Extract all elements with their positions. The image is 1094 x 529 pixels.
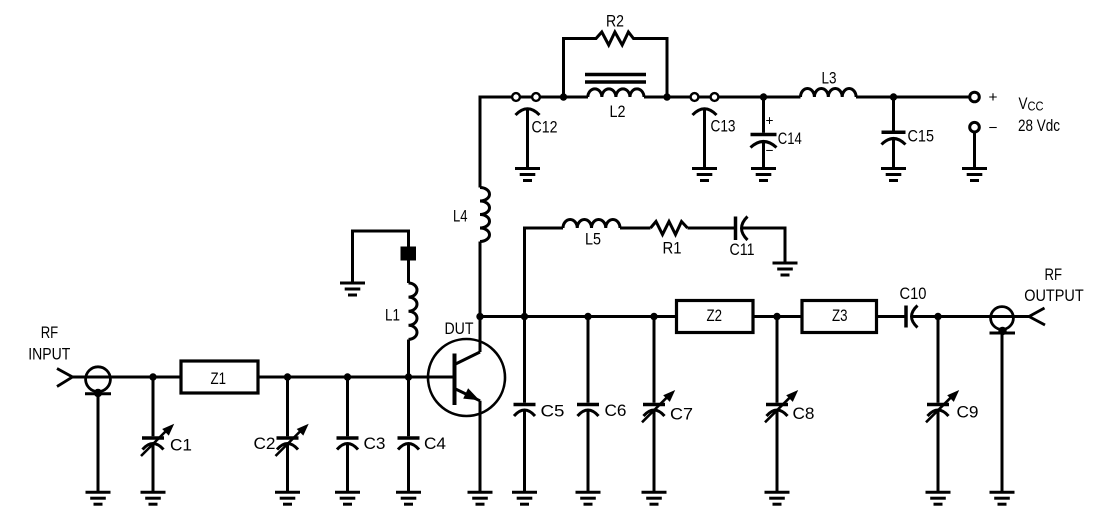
arrow C9 xyxy=(926,390,959,422)
capacitor C1 variable xyxy=(142,438,164,450)
RF input connector xyxy=(85,367,111,394)
wire Vcc bus left xyxy=(480,96,588,99)
svg-text:C8: C8 xyxy=(793,405,815,423)
junction C1 xyxy=(149,373,156,380)
RF output connector xyxy=(990,307,1016,333)
junction R2 right xyxy=(663,93,670,100)
junction C9 xyxy=(934,313,941,320)
svg-text:C14: C14 xyxy=(778,130,802,148)
arrow C8 xyxy=(765,390,798,422)
wire C1 upper xyxy=(152,377,155,436)
svg-text:C7: C7 xyxy=(670,406,693,424)
junction collector node xyxy=(476,313,483,320)
wire C5 upper xyxy=(523,317,526,403)
ground C1 xyxy=(141,492,166,504)
svg-text:R2: R2 xyxy=(606,13,624,31)
svg-text:Z1: Z1 xyxy=(211,370,227,388)
wire Vcc bus middle xyxy=(644,96,801,99)
wire C14 upper xyxy=(762,97,765,133)
junction C2 xyxy=(284,373,291,380)
capacitor C4 xyxy=(398,438,420,450)
ground C13 xyxy=(692,169,717,181)
wire C11 to ground corner xyxy=(741,228,785,264)
wire C14 lower xyxy=(762,141,765,169)
ground C6 xyxy=(576,492,601,504)
wire C15 upper xyxy=(892,97,895,131)
svg-text:C1: C1 xyxy=(170,437,192,455)
feedthrough capacitor C13 bushing circles xyxy=(691,93,719,101)
wire DUT collector xyxy=(479,317,482,353)
wire C4 upper xyxy=(407,377,410,436)
capacitor C7 variable xyxy=(643,405,665,417)
capacitor C10 series xyxy=(906,306,918,328)
capacitor C14 polarized xyxy=(751,135,777,148)
svg-text:C6: C6 xyxy=(605,402,627,420)
wire C1 lower xyxy=(152,443,155,493)
wire feedback vertical from collector node xyxy=(523,228,526,317)
svg-text:L2: L2 xyxy=(610,103,626,121)
svg-text:C3: C3 xyxy=(364,435,386,453)
svg-text:L3: L3 xyxy=(822,70,837,88)
wire C4 lower xyxy=(407,443,410,493)
wire C15 lower xyxy=(892,139,895,169)
svg-text:C2: C2 xyxy=(254,435,276,453)
svg-text:28 Vdc: 28 Vdc xyxy=(1018,117,1060,135)
svg-text:L5: L5 xyxy=(585,231,601,249)
ground output connector xyxy=(990,492,1015,504)
ground C15 xyxy=(881,169,906,181)
wire C7 lower xyxy=(653,409,656,492)
wire C10 to output arrow xyxy=(912,315,1030,318)
wire bead to L1 coil xyxy=(407,260,410,283)
ground C3 xyxy=(335,492,360,504)
wire main input line xyxy=(73,376,455,379)
capacitor C8 variable xyxy=(766,405,788,417)
svg-text:C10: C10 xyxy=(900,285,927,303)
feedthrough capacitor C12 bushing circles xyxy=(512,93,540,101)
svg-text:C4: C4 xyxy=(424,435,446,453)
wire feedback to L5 xyxy=(523,227,563,230)
ferrite bead on L1 xyxy=(401,247,417,261)
ground C12 xyxy=(515,169,540,181)
wire C13 vertical xyxy=(703,108,706,169)
svg-text:Z2: Z2 xyxy=(707,307,723,325)
junction C4 L1 xyxy=(405,373,412,380)
wire C7 upper xyxy=(653,317,656,403)
svg-text:C15: C15 xyxy=(908,128,935,146)
capacitor C3 xyxy=(337,438,359,450)
ground C4 xyxy=(396,492,421,504)
svg-text:R1: R1 xyxy=(663,240,682,258)
wire L1 coil to input line xyxy=(407,340,410,378)
wire C9 lower xyxy=(937,409,940,492)
inductor L1 xyxy=(409,283,418,339)
ground L1 top left xyxy=(340,283,365,295)
svg-text:C9: C9 xyxy=(957,404,979,422)
svg-text:L1: L1 xyxy=(385,307,400,325)
ground C8 xyxy=(765,492,790,504)
RF output arrow xyxy=(1029,308,1045,325)
svg-text:DUT: DUT xyxy=(445,320,474,338)
arrow C7 xyxy=(642,390,675,422)
wire Vcc minus terminal to ground xyxy=(973,130,976,169)
ground input connector xyxy=(86,492,111,504)
svg-text:RF: RF xyxy=(41,324,59,342)
wire C6 lower xyxy=(587,409,590,492)
svg-text:C11: C11 xyxy=(730,241,755,259)
capacitor C11 series xyxy=(736,217,748,241)
junction input connector xyxy=(94,389,102,397)
junction C8 xyxy=(773,313,780,320)
svg-text:L4: L4 xyxy=(453,208,468,226)
terminal Vcc plus xyxy=(970,92,980,102)
svg-text:C12: C12 xyxy=(532,119,558,137)
wire C8 lower xyxy=(776,409,779,492)
resistor R1 xyxy=(651,222,688,235)
svg-text:+: + xyxy=(766,112,774,128)
wire C12 vertical xyxy=(526,108,529,169)
wire C9 upper xyxy=(937,317,940,403)
terminal Vcc minus xyxy=(970,122,980,132)
junction C14 xyxy=(760,93,767,100)
inductor L3 xyxy=(801,88,857,97)
junction C6 xyxy=(584,313,591,320)
wire C3 lower xyxy=(346,443,349,493)
wire R1 to C11 xyxy=(688,227,736,230)
arrow C1 xyxy=(141,424,174,456)
transistor DUT xyxy=(428,339,505,416)
inductor L2 xyxy=(588,89,644,97)
inductor L2 core bars xyxy=(585,75,646,83)
wire Vcc bus right xyxy=(856,96,969,99)
impedance box Z1 xyxy=(181,361,258,393)
junction R2 left xyxy=(560,93,567,100)
wire input connector to ground xyxy=(97,393,100,492)
impedance box Z2 xyxy=(677,301,754,333)
ground C14 xyxy=(751,169,776,181)
inductor L5 xyxy=(563,219,620,228)
junction output connector xyxy=(998,327,1006,335)
ground C11 xyxy=(773,263,798,275)
wire collector line xyxy=(480,315,906,318)
wire C5 lower xyxy=(523,409,526,492)
capacitor C9 variable xyxy=(927,405,949,417)
svg-text:C13: C13 xyxy=(711,118,736,136)
wire L1 bead to top corner and left ground xyxy=(353,231,409,284)
ground C7 xyxy=(642,492,667,504)
svg-text:OUTPUT: OUTPUT xyxy=(1024,287,1084,305)
svg-text:−: − xyxy=(989,120,998,137)
ground C5 xyxy=(512,492,537,504)
wire DUT emitter to ground xyxy=(479,401,482,492)
svg-text:RF: RF xyxy=(1045,266,1063,284)
ground Vcc minus xyxy=(962,169,987,181)
ground DUT emitter xyxy=(468,492,493,504)
junction C15 xyxy=(890,93,897,100)
svg-text:Z3: Z3 xyxy=(832,307,848,325)
svg-text:VCC: VCC xyxy=(1019,95,1044,114)
resistor R2 bypass loop xyxy=(564,32,668,97)
wire C3 upper xyxy=(346,377,349,436)
arrow C2 xyxy=(276,424,309,456)
RF input arrow xyxy=(57,369,73,387)
svg-text:INPUT: INPUT xyxy=(28,346,70,364)
wire L5 to R1 xyxy=(620,227,651,230)
ground C9 xyxy=(926,492,951,504)
svg-text:C5: C5 xyxy=(541,403,565,421)
capacitor C12 plate arc xyxy=(516,109,540,115)
impedance box Z3 xyxy=(802,301,877,333)
ground C2 xyxy=(275,492,300,504)
junction C3 xyxy=(344,373,351,380)
capacitor C13 plate arc xyxy=(693,109,717,115)
capacitor C15 xyxy=(882,132,906,144)
wire C6 upper xyxy=(587,317,590,403)
wire C2 upper xyxy=(286,377,289,436)
inductor L4 xyxy=(480,188,490,242)
wire L4 top segment xyxy=(479,96,482,188)
svg-text:−: − xyxy=(766,142,774,158)
capacitor C2 variable xyxy=(277,438,299,450)
svg-text:+: + xyxy=(989,89,998,106)
wire C2 lower xyxy=(286,443,289,493)
junction C7 xyxy=(650,313,657,320)
junction C5 feedback xyxy=(521,313,528,320)
wire C8 upper xyxy=(776,317,779,403)
capacitor C5 xyxy=(514,405,536,417)
wire output connector to ground xyxy=(1001,332,1004,492)
capacitor C6 xyxy=(577,405,599,417)
wire L4 bottom to collector node xyxy=(479,242,482,317)
